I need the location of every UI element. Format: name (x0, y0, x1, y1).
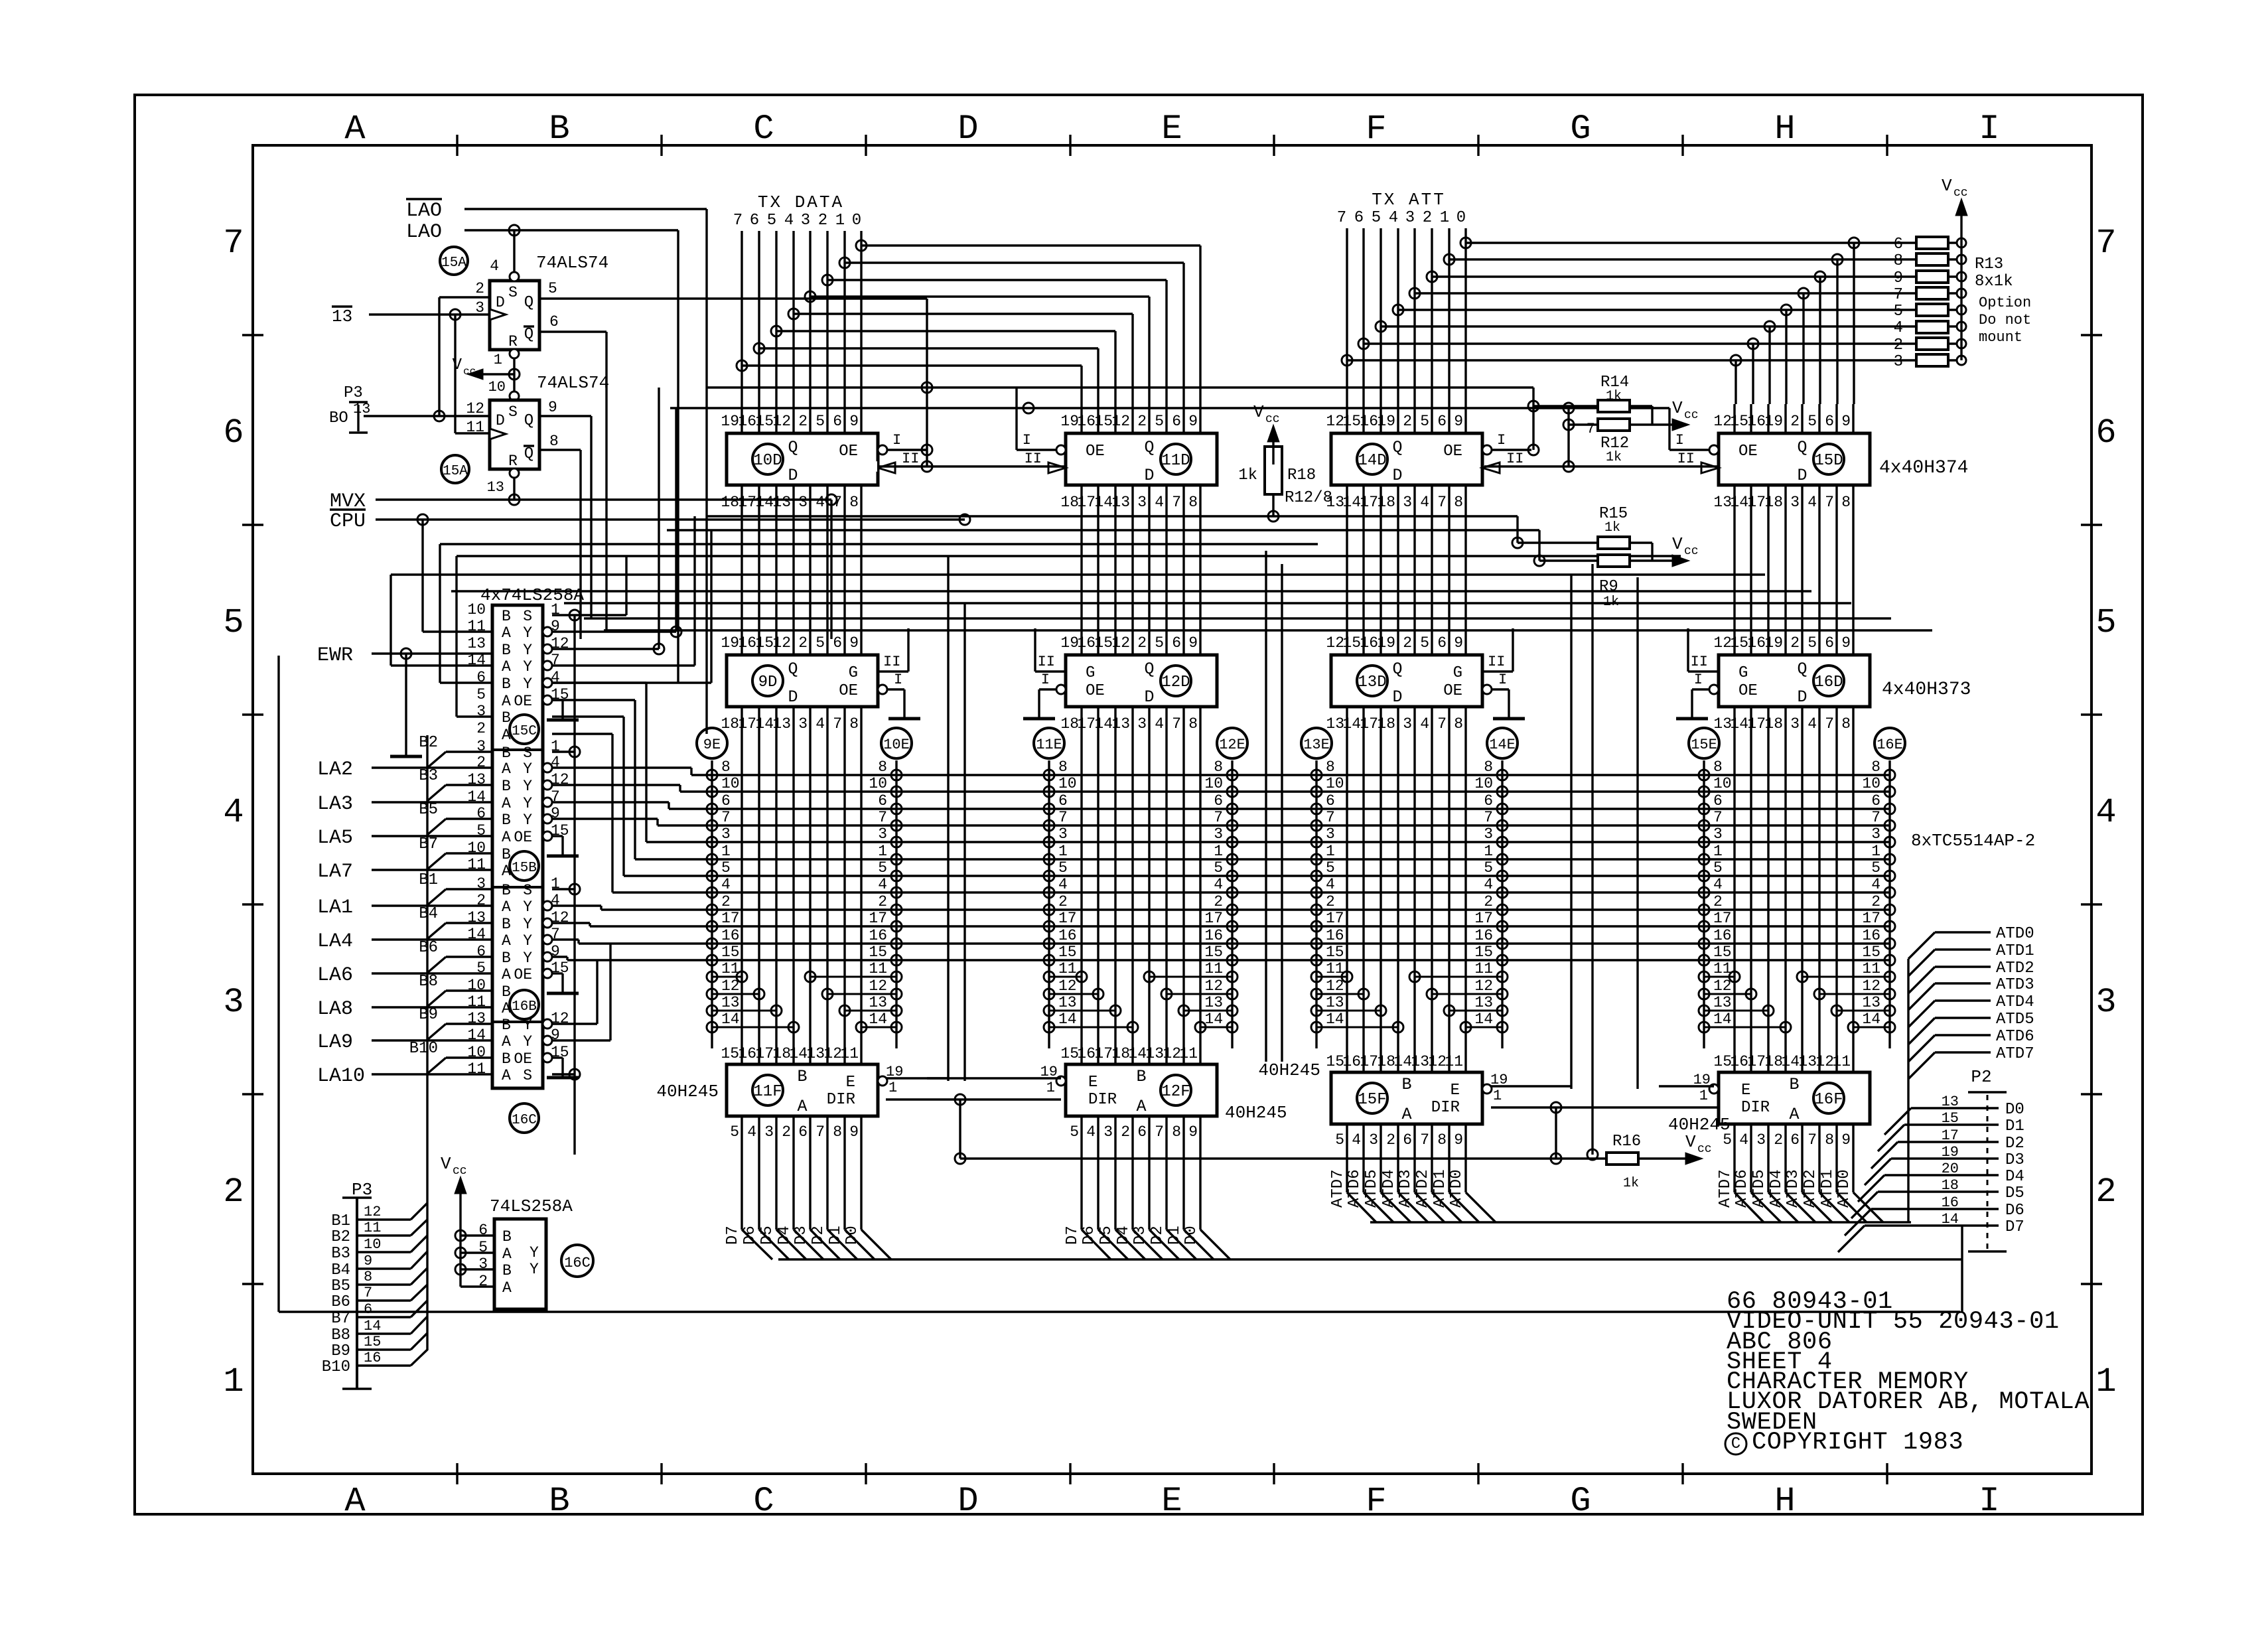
svg-text:18: 18 (1060, 715, 1079, 733)
svg-text:5: 5 (223, 603, 244, 642)
svg-text:V: V (1942, 176, 1952, 196)
svg-text:D2: D2 (810, 1226, 827, 1245)
svg-text:8: 8 (1188, 494, 1198, 511)
svg-text:1: 1 (1713, 843, 1723, 860)
svg-text:5: 5 (1326, 859, 1335, 877)
svg-text:E: E (1451, 1082, 1460, 1100)
svg-text:6: 6 (1871, 792, 1880, 810)
svg-text:II: II (1506, 451, 1524, 467)
svg-text:7: 7 (223, 224, 244, 263)
svg-text:E: E (1161, 109, 1182, 149)
svg-text:ATD5: ATD5 (1363, 1169, 1381, 1208)
svg-text:6: 6 (721, 792, 731, 810)
svg-text:Y: Y (523, 932, 532, 950)
svg-text:ATD2: ATD2 (1996, 960, 2034, 977)
svg-text:D: D (1392, 687, 1402, 707)
svg-text:B8: B8 (331, 1326, 350, 1344)
svg-text:15: 15 (1474, 944, 1493, 961)
svg-text:6: 6 (1214, 792, 1223, 810)
svg-text:I: I (1023, 432, 1031, 449)
svg-text:4: 4 (1326, 876, 1335, 893)
svg-text:3: 3 (1790, 715, 1800, 733)
svg-text:7: 7 (833, 494, 842, 511)
svg-text:6: 6 (1326, 792, 1335, 810)
svg-text:5: 5 (1372, 209, 1381, 227)
svg-text:12: 12 (1474, 977, 1493, 995)
svg-text:7: 7 (1437, 494, 1447, 511)
svg-text:8: 8 (1058, 758, 1068, 776)
svg-text:5: 5 (1155, 413, 1164, 430)
svg-text:CPU: CPU (330, 510, 366, 533)
svg-text:4: 4 (1871, 876, 1880, 893)
svg-text:LA2: LA2 (317, 758, 353, 781)
svg-text:0: 0 (852, 212, 861, 230)
svg-text:4: 4 (1352, 1131, 1361, 1149)
svg-text:10: 10 (1058, 775, 1077, 792)
svg-text:5: 5 (815, 634, 825, 652)
svg-text:I: I (1041, 672, 1050, 688)
svg-text:0: 0 (1456, 209, 1466, 227)
svg-text:4x40H373: 4x40H373 (1882, 679, 1971, 700)
svg-text:A: A (502, 693, 511, 710)
svg-text:4: 4 (1058, 876, 1068, 893)
svg-text:17: 17 (738, 715, 756, 733)
svg-text:TX ATT: TX ATT (1372, 190, 1446, 210)
svg-text:15B: 15B (512, 861, 537, 876)
svg-text:Y: Y (523, 950, 532, 967)
svg-text:E: E (846, 1074, 855, 1092)
svg-text:18: 18 (721, 494, 739, 511)
svg-text:15: 15 (1058, 944, 1077, 961)
svg-text:3: 3 (878, 825, 887, 843)
svg-text:3: 3 (1326, 825, 1335, 843)
svg-text:16: 16 (1730, 1053, 1748, 1070)
svg-text:B: B (1789, 1075, 1799, 1094)
svg-text:ATD3: ATD3 (1784, 1169, 1802, 1208)
svg-text:H: H (1774, 109, 1795, 149)
svg-text:2: 2 (1894, 336, 1903, 354)
svg-text:4: 4 (490, 257, 499, 275)
svg-text:16: 16 (1474, 927, 1493, 944)
svg-text:6: 6 (750, 212, 759, 230)
svg-text:B: B (502, 778, 511, 795)
svg-text:2: 2 (2095, 1173, 2116, 1212)
svg-text:14: 14 (755, 494, 774, 511)
svg-text:A: A (1401, 1105, 1411, 1124)
svg-text:4x40H374: 4x40H374 (1879, 458, 1968, 478)
svg-text:II: II (1488, 654, 1505, 670)
svg-text:1: 1 (223, 1362, 244, 1401)
svg-text:D: D (1797, 687, 1807, 707)
svg-text:14: 14 (1393, 1053, 1412, 1070)
svg-text:7: 7 (1894, 286, 1903, 304)
svg-text:11: 11 (1179, 1045, 1198, 1062)
svg-text:D3: D3 (792, 1226, 810, 1245)
svg-text:15: 15 (1342, 634, 1361, 652)
svg-text:12E: 12E (1219, 737, 1245, 753)
svg-text:11: 11 (1204, 960, 1223, 977)
svg-text:E: E (1088, 1074, 1098, 1092)
svg-text:15: 15 (721, 1045, 739, 1062)
svg-text:D6: D6 (741, 1226, 759, 1245)
svg-text:12: 12 (1111, 634, 1130, 652)
svg-text:6: 6 (549, 313, 559, 330)
svg-text:1k: 1k (1606, 389, 1622, 404)
svg-text:12: 12 (1058, 977, 1077, 995)
svg-text:9: 9 (1454, 634, 1463, 652)
svg-text:4: 4 (1420, 715, 1429, 733)
svg-text:Y: Y (523, 675, 532, 693)
svg-text:10: 10 (488, 379, 506, 395)
svg-text:6: 6 (364, 1301, 372, 1318)
svg-text:12: 12 (1428, 1053, 1447, 1070)
svg-text:2: 2 (782, 1123, 791, 1141)
svg-text:G: G (849, 664, 858, 682)
svg-text:19: 19 (1377, 634, 1395, 652)
svg-text:18: 18 (1764, 494, 1783, 511)
svg-text:4: 4 (1086, 1123, 1096, 1141)
svg-text:13: 13 (1798, 1053, 1817, 1070)
svg-text:14: 14 (869, 1011, 887, 1028)
svg-text:74ALS74: 74ALS74 (536, 253, 608, 273)
svg-text:13: 13 (806, 1045, 825, 1062)
svg-text:Q: Q (1797, 438, 1807, 457)
svg-text:8: 8 (1326, 758, 1335, 776)
svg-text:A: A (502, 658, 511, 675)
svg-text:1: 1 (1326, 843, 1335, 860)
svg-text:12: 12 (1326, 977, 1344, 995)
svg-text:19: 19 (1060, 413, 1079, 430)
svg-text:17: 17 (1058, 910, 1077, 927)
svg-text:15D: 15D (1814, 452, 1843, 470)
svg-text:ATD7: ATD7 (1717, 1169, 1735, 1208)
svg-text:V: V (441, 1154, 451, 1174)
svg-text:D: D (957, 1482, 978, 1521)
svg-text:16C: 16C (512, 1113, 537, 1128)
svg-text:5: 5 (1335, 1131, 1344, 1149)
svg-text:cc: cc (1953, 186, 1968, 200)
svg-text:5: 5 (1420, 634, 1429, 652)
svg-text:Y: Y (530, 1261, 539, 1278)
svg-text:II: II (902, 451, 919, 467)
svg-text:R: R (508, 453, 518, 470)
svg-text:A: A (797, 1097, 807, 1116)
svg-text:7: 7 (1871, 809, 1880, 826)
svg-text:16: 16 (738, 1045, 756, 1062)
svg-text:V: V (1685, 1132, 1696, 1152)
svg-text:13: 13 (1713, 494, 1732, 511)
svg-text:12: 12 (1713, 634, 1732, 652)
svg-text:OE: OE (514, 829, 532, 846)
svg-text:4: 4 (878, 876, 887, 893)
svg-text:Q: Q (524, 412, 533, 430)
svg-text:2: 2 (1386, 1131, 1395, 1149)
svg-text:5: 5 (1894, 303, 1903, 320)
svg-text:7: 7 (2095, 224, 2116, 263)
svg-text:B: B (502, 745, 511, 762)
svg-text:14: 14 (1342, 715, 1361, 733)
svg-text:17: 17 (1360, 494, 1378, 511)
svg-text:9: 9 (1188, 1123, 1198, 1141)
svg-text:B1: B1 (331, 1212, 350, 1230)
svg-text:I: I (1979, 109, 1999, 149)
svg-text:11: 11 (466, 419, 484, 436)
svg-text:A: A (344, 1482, 366, 1521)
svg-text:8: 8 (721, 758, 731, 776)
svg-text:2: 2 (223, 1173, 244, 1212)
svg-text:17: 17 (721, 910, 740, 927)
svg-text:14: 14 (1730, 494, 1748, 511)
svg-text:6: 6 (833, 634, 842, 652)
svg-text:OE: OE (514, 693, 532, 710)
svg-text:10: 10 (869, 775, 887, 792)
svg-text:74ALS74: 74ALS74 (537, 373, 609, 393)
svg-text:DIR: DIR (827, 1091, 855, 1109)
svg-text:8: 8 (1437, 1131, 1447, 1149)
svg-text:14: 14 (755, 715, 774, 733)
svg-text:17: 17 (869, 910, 887, 927)
svg-text:1k: 1k (1238, 466, 1257, 484)
svg-text:13: 13 (332, 307, 352, 326)
svg-text:mount: mount (1979, 329, 2022, 346)
svg-text:19: 19 (1764, 413, 1783, 430)
svg-text:17: 17 (1747, 1053, 1766, 1070)
svg-text:I: I (894, 672, 902, 688)
svg-text:13: 13 (353, 401, 370, 417)
svg-text:6: 6 (1894, 236, 1903, 253)
svg-text:7: 7 (1420, 1131, 1429, 1149)
svg-text:Y: Y (523, 812, 532, 829)
svg-text:cc: cc (1684, 409, 1699, 422)
svg-text:3: 3 (1713, 825, 1723, 843)
svg-text:8: 8 (1172, 1123, 1181, 1141)
svg-text:5: 5 (2095, 603, 2116, 642)
svg-text:S: S (523, 882, 532, 899)
svg-text:OE: OE (1443, 682, 1462, 700)
svg-text:R16: R16 (1612, 1133, 1641, 1151)
svg-text:1: 1 (1214, 843, 1223, 860)
svg-text:Q: Q (1144, 660, 1154, 679)
svg-text:2: 2 (1790, 413, 1800, 430)
svg-text:7: 7 (1058, 809, 1068, 826)
svg-text:B5: B5 (331, 1277, 350, 1295)
svg-text:LA9: LA9 (317, 1031, 353, 1054)
svg-text:P3: P3 (344, 384, 363, 402)
svg-text:ATD0: ATD0 (1996, 925, 2034, 943)
svg-text:11D: 11D (1161, 452, 1190, 470)
svg-text:3: 3 (798, 494, 808, 511)
svg-text:2: 2 (1058, 893, 1068, 910)
svg-text:S: S (523, 1067, 532, 1084)
svg-text:13D: 13D (1358, 674, 1386, 691)
svg-text:E: E (1161, 1482, 1182, 1521)
svg-text:D: D (1144, 687, 1154, 707)
svg-text:17: 17 (1204, 910, 1223, 927)
svg-text:B: B (797, 1067, 807, 1086)
svg-text:G: G (1453, 664, 1462, 682)
svg-text:14D: 14D (1358, 452, 1386, 470)
svg-text:13: 13 (721, 994, 740, 1011)
svg-text:1: 1 (835, 212, 845, 230)
svg-text:5: 5 (730, 1123, 739, 1141)
svg-text:3: 3 (1790, 494, 1800, 511)
svg-text:Y: Y (523, 760, 532, 778)
svg-text:LA6: LA6 (317, 964, 353, 987)
svg-text:2: 2 (878, 893, 887, 910)
svg-text:17: 17 (1094, 1045, 1113, 1062)
svg-text:6: 6 (1137, 1123, 1147, 1141)
svg-text:1: 1 (878, 843, 887, 860)
svg-text:15E: 15E (1691, 737, 1717, 753)
svg-text:9: 9 (849, 634, 859, 652)
svg-text:10: 10 (1204, 775, 1223, 792)
svg-text:D7: D7 (724, 1226, 742, 1245)
svg-text:8: 8 (833, 1123, 842, 1141)
svg-text:12: 12 (1815, 1053, 1834, 1070)
svg-text:I: I (1694, 672, 1703, 688)
svg-text:17: 17 (1077, 715, 1096, 733)
svg-text:6: 6 (223, 413, 244, 453)
svg-text:9: 9 (1188, 413, 1198, 430)
svg-text:LA4: LA4 (317, 930, 353, 953)
svg-text:ATD4: ATD4 (1996, 993, 2034, 1011)
svg-text:5: 5 (476, 686, 486, 703)
svg-text:5: 5 (1807, 413, 1817, 430)
svg-text:17: 17 (1326, 910, 1344, 927)
svg-text:6: 6 (1172, 634, 1181, 652)
svg-text:OE: OE (1086, 682, 1105, 700)
svg-text:10: 10 (1862, 775, 1880, 792)
svg-text:11: 11 (364, 1220, 381, 1236)
svg-text:Y: Y (523, 916, 532, 933)
svg-text:E: E (1741, 1082, 1750, 1100)
svg-text:C: C (1731, 1435, 1740, 1453)
svg-text:17: 17 (1713, 910, 1732, 927)
svg-text:LAO: LAO (406, 221, 442, 244)
svg-text:8: 8 (1454, 494, 1463, 511)
svg-text:2: 2 (1137, 413, 1147, 430)
svg-text:16: 16 (1713, 927, 1732, 944)
svg-text:13: 13 (1111, 494, 1130, 511)
svg-text:13: 13 (1326, 994, 1344, 1011)
svg-text:4: 4 (223, 793, 244, 832)
svg-text:D: D (788, 687, 798, 707)
svg-text:15: 15 (1326, 1053, 1344, 1070)
svg-text:LA5: LA5 (317, 827, 353, 849)
svg-text:3: 3 (801, 212, 810, 230)
svg-text:1k: 1k (1603, 595, 1619, 610)
svg-text:19: 19 (721, 634, 739, 652)
svg-text:D0: D0 (1182, 1226, 1200, 1245)
svg-text:7: 7 (1587, 421, 1595, 437)
svg-text:10E: 10E (883, 737, 910, 753)
svg-text:OE: OE (1086, 443, 1105, 461)
svg-text:15: 15 (1730, 634, 1748, 652)
svg-text:7: 7 (1326, 809, 1335, 826)
svg-text:11: 11 (1474, 960, 1493, 977)
svg-text:D7: D7 (2005, 1218, 2024, 1236)
svg-text:16: 16 (1862, 927, 1880, 944)
svg-text:B9: B9 (331, 1342, 350, 1360)
svg-text:7: 7 (815, 1123, 825, 1141)
svg-text:19: 19 (721, 413, 739, 430)
svg-text:II: II (883, 654, 900, 670)
svg-text:11: 11 (1862, 960, 1880, 977)
svg-text:LA3: LA3 (317, 793, 353, 816)
svg-text:R12/8: R12/8 (1285, 489, 1332, 507)
svg-text:5: 5 (1807, 634, 1817, 652)
svg-text:6: 6 (1172, 413, 1181, 430)
svg-text:4: 4 (1894, 319, 1903, 337)
svg-text:1: 1 (1440, 209, 1449, 227)
svg-text:F: F (1366, 109, 1386, 149)
svg-text:B: B (549, 109, 569, 149)
svg-text:14: 14 (1094, 494, 1113, 511)
svg-text:4: 4 (1155, 494, 1164, 511)
svg-text:13E: 13E (1303, 737, 1330, 753)
svg-text:14: 14 (1342, 494, 1361, 511)
svg-text:15A: 15A (443, 464, 468, 479)
svg-text:5: 5 (721, 859, 731, 877)
svg-text:13: 13 (1058, 994, 1077, 1011)
svg-text:4: 4 (1484, 876, 1493, 893)
svg-text:74LS258A: 74LS258A (490, 1196, 573, 1216)
svg-text:8: 8 (549, 433, 559, 450)
svg-text:16E: 16E (1877, 737, 1903, 753)
svg-text:6: 6 (833, 413, 842, 430)
svg-text:15A: 15A (441, 255, 466, 271)
svg-text:1k: 1k (1623, 1176, 1639, 1191)
svg-text:ATD2: ATD2 (1802, 1169, 1819, 1208)
svg-text:17: 17 (1862, 910, 1880, 927)
svg-text:7: 7 (733, 212, 743, 230)
svg-text:14: 14 (1781, 1053, 1800, 1070)
svg-text:B3: B3 (331, 1245, 350, 1263)
svg-text:B4: B4 (331, 1261, 350, 1279)
svg-text:3: 3 (1871, 825, 1880, 843)
svg-text:5: 5 (1484, 859, 1493, 877)
svg-text:13: 13 (1411, 1053, 1429, 1070)
svg-text:G: G (1086, 664, 1095, 682)
svg-text:7: 7 (1437, 715, 1447, 733)
svg-text:OE: OE (1738, 682, 1758, 700)
svg-text:11E: 11E (1036, 737, 1062, 753)
svg-text:cc: cc (463, 366, 476, 378)
svg-text:I: I (1498, 672, 1507, 688)
svg-text:R18: R18 (1287, 466, 1316, 484)
svg-text:2: 2 (1403, 413, 1412, 430)
svg-text:A: A (502, 795, 511, 812)
svg-text:S: S (523, 745, 532, 762)
svg-text:13: 13 (1145, 1045, 1164, 1062)
svg-text:Q: Q (524, 326, 533, 344)
svg-text:G: G (1570, 109, 1591, 149)
svg-text:3: 3 (798, 715, 808, 733)
svg-text:3: 3 (1103, 1123, 1113, 1141)
svg-text:LA7: LA7 (317, 861, 353, 883)
svg-text:8: 8 (849, 494, 859, 511)
svg-text:4: 4 (1807, 715, 1817, 733)
svg-text:V: V (1253, 402, 1264, 422)
svg-text:Y: Y (530, 1244, 539, 1261)
svg-text:8: 8 (1894, 252, 1903, 270)
svg-text:D4: D4 (776, 1226, 794, 1245)
svg-text:3: 3 (1137, 715, 1147, 733)
svg-text:B: B (502, 983, 511, 1001)
svg-text:6: 6 (798, 1123, 808, 1141)
svg-text:16: 16 (1360, 413, 1378, 430)
svg-text:13: 13 (869, 994, 887, 1011)
